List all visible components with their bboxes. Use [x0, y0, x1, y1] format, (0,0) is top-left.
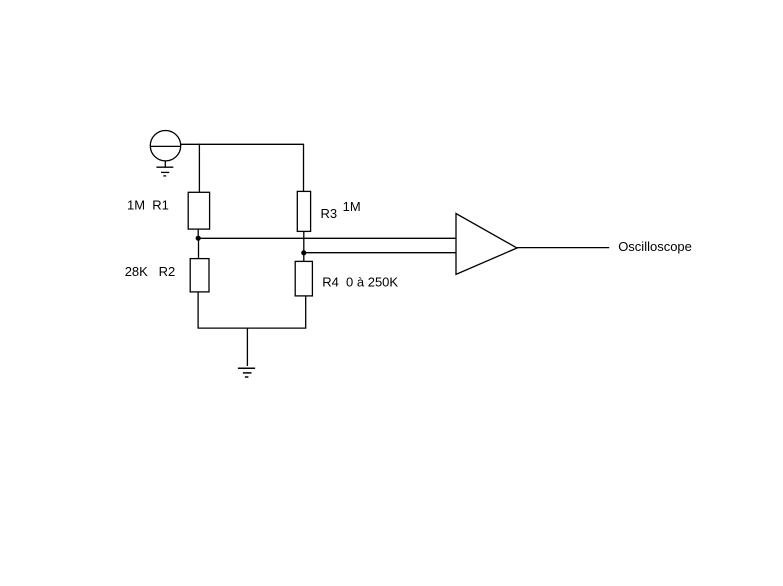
wire top rail to R1	[198, 144, 200, 193]
wire top rail to R3	[303, 144, 305, 192]
svg-text:28K R2: 28K R2	[125, 264, 176, 279]
op-amp U1	[456, 214, 517, 275]
ground (source)	[156, 161, 173, 176]
wire R3 to node B	[303, 231, 305, 252]
wire node A to R2	[198, 238, 200, 259]
wire R2 to bottom rail	[197, 292, 199, 328]
wire bottom rail to ground	[246, 328, 248, 366]
resistor R4	[295, 261, 312, 296]
wire amp output	[517, 247, 609, 249]
svg-text:1M: 1M	[343, 199, 361, 214]
svg-text:R3: R3	[321, 206, 338, 221]
node A junction dot	[196, 236, 201, 241]
wire R1 to node A	[197, 229, 199, 238]
svg-text:R4 0 à 250K: R4 0 à 250K	[322, 275, 398, 290]
signal source V1	[150, 131, 180, 161]
node B junction dot	[301, 250, 306, 255]
wire R4 to bottom rail	[305, 296, 307, 328]
wire node A to amp upper input	[198, 237, 456, 239]
wire bottom rail	[198, 327, 307, 329]
wire node B to amp lower input	[304, 252, 456, 254]
resistor R3	[297, 191, 310, 231]
svg-text:Oscilloscope: Oscilloscope	[618, 239, 692, 254]
svg-text:1M R1: 1M R1	[127, 198, 169, 213]
resistor R1	[188, 192, 209, 229]
resistor R2	[190, 259, 209, 292]
wire top rail	[181, 143, 304, 145]
ground (bottom)	[238, 368, 255, 377]
wire node B to R4	[303, 253, 305, 262]
